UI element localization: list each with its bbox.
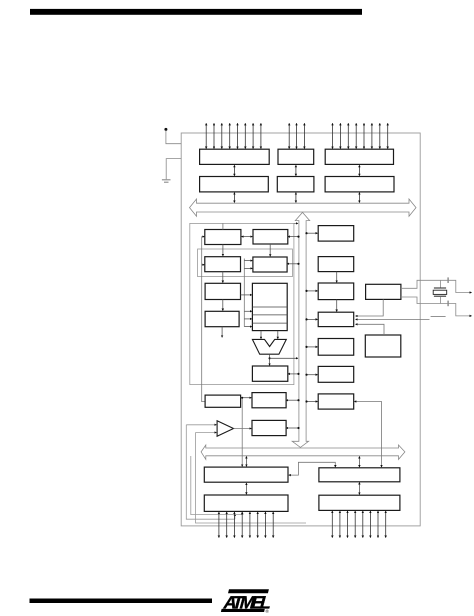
box: program counter xyxy=(205,230,241,245)
wire: interface-bus connector C xyxy=(358,193,360,203)
wire: PC down to flash xyxy=(222,245,224,257)
wrap line A arrow up xyxy=(234,514,236,519)
box: port D digital interface xyxy=(319,468,400,482)
wrap line B arrow up xyxy=(241,513,243,515)
wire: registers to ALU left input xyxy=(260,331,262,339)
wire: interface-bus connector A xyxy=(233,193,235,203)
vertical data bus xyxy=(292,212,310,447)
crystal stub top xyxy=(439,280,441,287)
wire: bus to R3 xyxy=(306,290,318,292)
crystal bottom plate xyxy=(434,295,446,297)
wire: MCU control up the left side xyxy=(202,237,205,402)
wire: flash down to instruction register xyxy=(222,272,224,283)
memory group thin rect xyxy=(198,249,293,277)
box: port A interface xyxy=(200,177,269,192)
box: SPI (R6) xyxy=(318,366,354,382)
wire: R2 down to R3 xyxy=(336,272,338,283)
port C pins (top right, 8 bidirectional) xyxy=(333,123,388,148)
wire: bus to R7 xyxy=(306,401,318,403)
wire: comparator interface to bus xyxy=(286,427,299,429)
wire: port D interface-drivers connector xyxy=(358,482,360,494)
box: port C interface xyxy=(325,177,394,192)
box: watchdog timer xyxy=(365,335,401,357)
wire: bus2 to port D register xyxy=(358,456,360,467)
wire: registers to ALU right input xyxy=(277,331,279,339)
wire: status register to bus xyxy=(288,373,299,375)
box: comparator interface xyxy=(252,420,286,435)
wire: comparator plus input xyxy=(186,424,216,426)
data bus 2 (lower horizontal double arrow) xyxy=(201,445,405,459)
box: port E drivers xyxy=(278,149,314,164)
wire: SRAM to bus xyxy=(287,263,299,265)
box: SRAM xyxy=(253,257,287,272)
wire: port B interface-drivers connector xyxy=(245,483,247,494)
box: port E interface xyxy=(277,177,314,192)
crystal body xyxy=(433,290,447,294)
wire: bus to R6 xyxy=(306,374,318,376)
box: port B drivers xyxy=(204,495,288,511)
wire: comparator output xyxy=(234,428,252,430)
wire: reset line outer dash xyxy=(431,316,446,318)
wire: control into PC xyxy=(202,236,205,238)
port B pins (bottom left, 8 bidirectional) xyxy=(219,512,273,538)
junction dot cmp-bus xyxy=(297,427,299,429)
wire VCC to border xyxy=(166,131,181,144)
wire: into register Y xyxy=(244,318,252,320)
wire: indirect addressing vertical xyxy=(243,259,245,327)
box: interrupt unit (R1) xyxy=(318,226,354,242)
wire: oscillator to timers xyxy=(356,299,384,316)
junction dot bus-R4 xyxy=(305,318,307,320)
wire: stack pointer to bus xyxy=(288,236,299,238)
register Y divider xyxy=(252,314,287,316)
wire: PC up to core rect top xyxy=(222,223,224,229)
junction dot SP-bus xyxy=(297,236,299,238)
junction dot bus-R6 xyxy=(305,374,307,376)
wire: step wire port B to port D xyxy=(289,462,336,475)
box: MCU ctrl register (R2) xyxy=(318,257,354,272)
junction dot bus-R5 xyxy=(305,346,307,348)
box: SPI unit (bottom middle) xyxy=(252,393,286,408)
wire: drivers-interface connector A xyxy=(233,165,235,176)
wire: oscillator XTAL2 stub xyxy=(401,297,472,316)
wire: control lines from decoder xyxy=(221,327,223,338)
wire: into register Z xyxy=(244,326,252,328)
box: EEPROM (R5) xyxy=(318,339,354,356)
wire: wrap line C (comparator input around left) xyxy=(196,433,307,524)
wire: comparator minus input xyxy=(196,432,217,434)
junction dot bus-R7 xyxy=(305,400,307,402)
junction dot bus-R1 xyxy=(305,232,307,234)
wire: R3 down to R4 xyxy=(336,300,338,312)
junction dot status-bus xyxy=(297,373,299,375)
wire: reset line xyxy=(356,318,430,320)
box: instruction decoder xyxy=(205,311,239,326)
wire: into SRAM lower xyxy=(244,267,252,269)
footer rule xyxy=(30,599,213,604)
box: port C drivers xyxy=(325,149,393,164)
wire: bus to R5 xyxy=(306,346,318,348)
ground symbol xyxy=(162,180,171,182)
junction dot SPI-bus xyxy=(297,399,299,401)
wire: instruction register to decoder xyxy=(222,300,224,311)
wire: drivers-interface connector E xyxy=(295,165,297,176)
register Z divider xyxy=(252,322,287,324)
port A pins (top left, 8 bidirectional) xyxy=(206,123,261,148)
crystal top plate xyxy=(434,287,446,289)
wire: interface-bus connector E xyxy=(295,193,297,203)
junction dot bus-R3 xyxy=(305,290,307,292)
wire: bus to R4 xyxy=(306,318,318,320)
XTAL2 pin tick xyxy=(447,301,449,307)
wire: into SRAM upper xyxy=(244,260,252,262)
wire: drivers-interface connector C xyxy=(358,165,360,176)
box: stack pointer xyxy=(253,230,288,245)
wire: stack pointer down to SRAM xyxy=(269,244,271,256)
box: instruction register xyxy=(205,283,240,299)
wire GND stub xyxy=(166,159,181,180)
wire: PC - stack pointer connector xyxy=(242,236,253,238)
XTAL1 pin tick xyxy=(447,277,449,283)
VCC pin dot xyxy=(164,128,167,131)
box: MCU ctrl and timing (R3) xyxy=(318,283,354,300)
box: general purpose registers xyxy=(252,283,287,330)
wire: wrap line A (comparator input around left) xyxy=(186,425,235,519)
box: port A drivers xyxy=(200,149,270,164)
wire: bus2 to port B register xyxy=(245,456,247,466)
analog comparator xyxy=(217,421,233,436)
crystal stub bottom xyxy=(439,297,441,304)
box: UART (R7) xyxy=(318,394,354,409)
port D pins (bottom right, 8 bidirectional) xyxy=(332,511,385,538)
box: port D drivers xyxy=(319,495,400,510)
wire: watchdog to timers xyxy=(356,324,385,335)
junction dot SRAM-bus xyxy=(297,263,299,265)
data bus 1 (upper horizontal double arrow) xyxy=(190,199,417,216)
register X divider xyxy=(252,306,287,308)
wire: into register X xyxy=(244,310,252,312)
box: status register xyxy=(252,366,287,381)
ALU xyxy=(252,339,286,354)
wire: MCU box to SPI box xyxy=(241,397,252,399)
box: oscillator xyxy=(366,284,401,299)
wire: control into flash xyxy=(202,264,205,266)
wire: MCU junction drop to port B xyxy=(241,398,243,467)
wire: SPI box to bus xyxy=(286,399,299,401)
wire: oscillator XTAL1 stub xyxy=(401,280,472,292)
junction dot ALU output xyxy=(269,357,271,359)
box: port B digital interface xyxy=(204,467,288,482)
wire: R7 UART to port D xyxy=(354,402,381,468)
box: timer counters (R4) xyxy=(318,312,354,326)
port E pins (top middle, 3 bidirectional) xyxy=(289,123,304,148)
chip outer border xyxy=(181,133,420,526)
header rule bar xyxy=(30,9,362,15)
wire: IR to registers xyxy=(241,294,252,296)
wire: ALU output down xyxy=(269,354,271,365)
wire: bus to R1 xyxy=(306,232,318,234)
junction dot MCU drop xyxy=(241,397,243,399)
wire: core rect top to vertical bus xyxy=(294,222,298,224)
svg-text:®: ® xyxy=(266,608,270,614)
Atmel logo xyxy=(221,589,274,614)
box: program flash xyxy=(205,257,241,272)
box: MCU ctrl timing (bottom mid-left) xyxy=(205,395,241,407)
wire: wrap line B xyxy=(191,456,243,515)
CPU core thin rect (top edge is PC wire to bus) xyxy=(190,223,294,384)
wire: ALU to bus xyxy=(270,357,298,359)
